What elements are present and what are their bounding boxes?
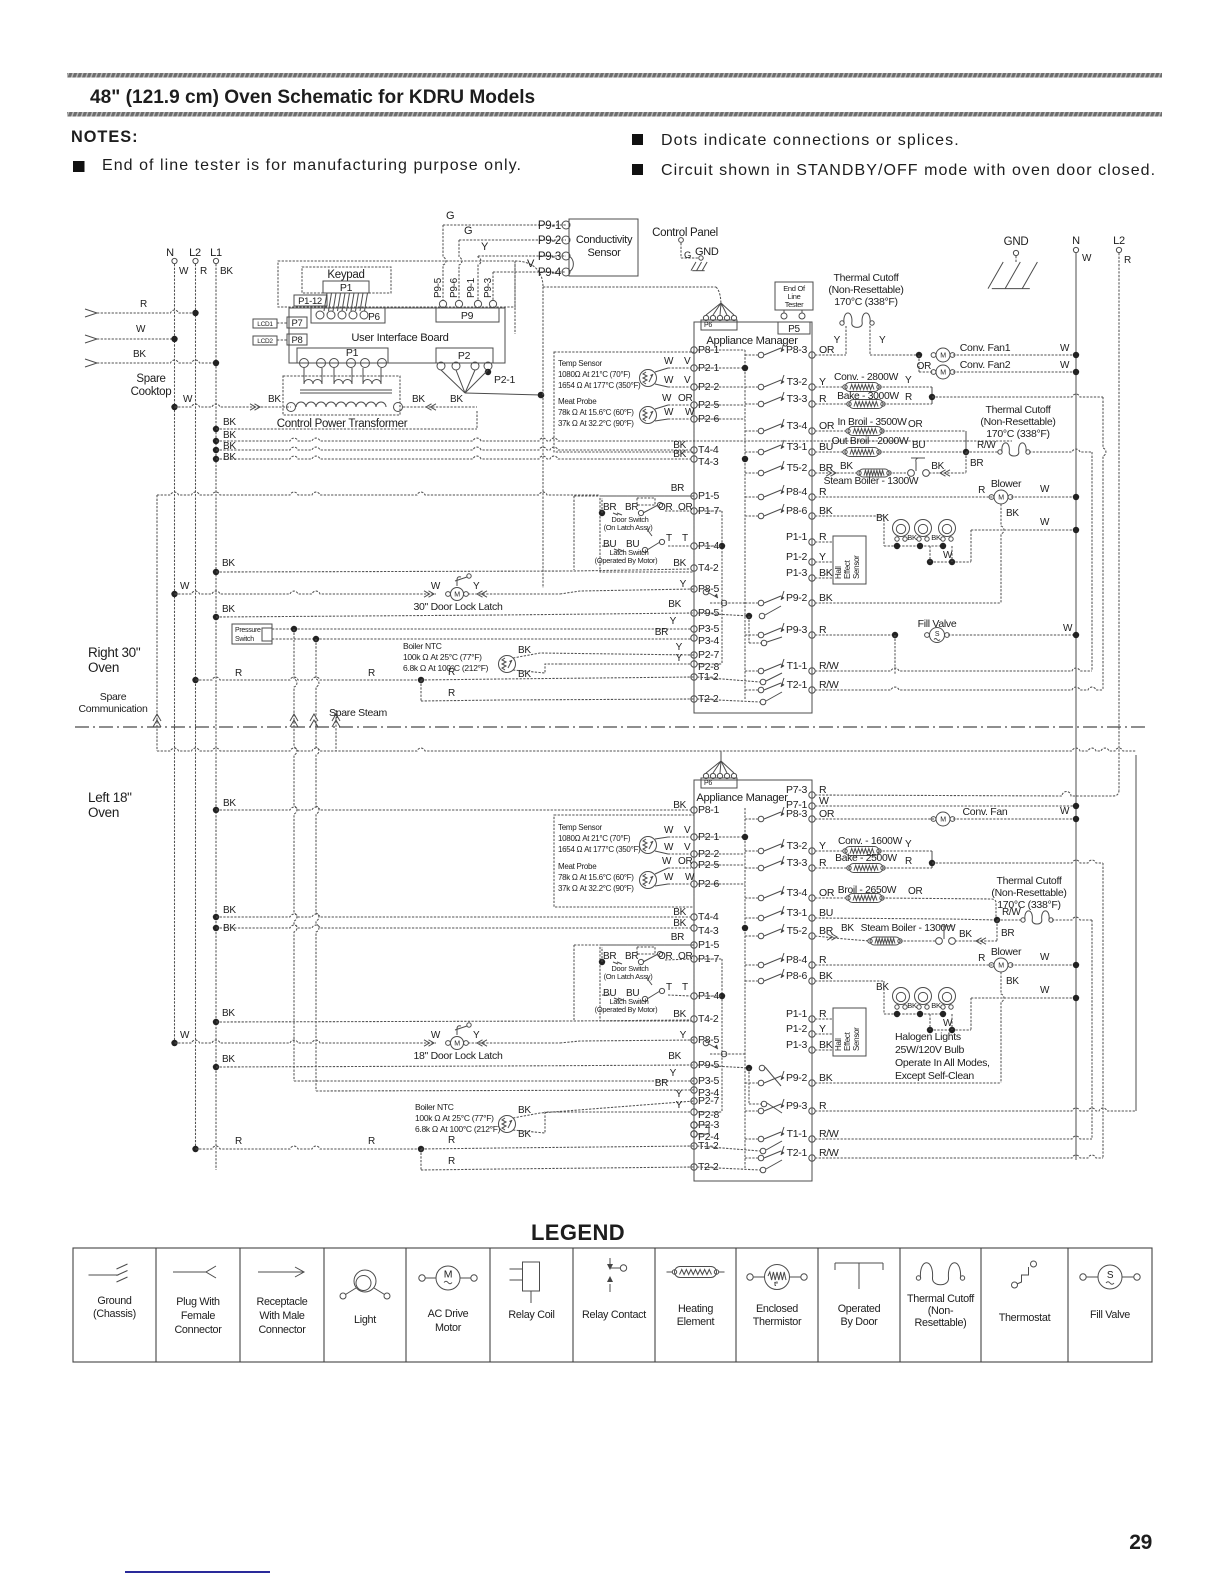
svg-text:LCD2: LCD2 bbox=[257, 338, 273, 345]
legend table bbox=[73, 1248, 1152, 1362]
wire L2 bus bbox=[195, 264, 197, 1149]
svg-text:R: R bbox=[978, 953, 985, 964]
svg-text:By Door: By Door bbox=[841, 1316, 879, 1328]
svg-text:P2-7: P2-7 bbox=[698, 649, 719, 661]
wire P9-3 P9-4 jumper arc bbox=[569, 256, 573, 272]
svg-text:(Non-Resettable): (Non-Resettable) bbox=[828, 284, 903, 296]
svg-text:Relay Contact: Relay Contact bbox=[582, 1309, 646, 1321]
AM18 T1-2 T2-2 feeds bbox=[697, 1146, 760, 1151]
svg-text:P9-3: P9-3 bbox=[786, 624, 807, 636]
svg-text:Sensor: Sensor bbox=[852, 1027, 861, 1051]
svg-text:Temp Sensor: Temp Sensor bbox=[558, 359, 602, 368]
30 door lock latch bbox=[171, 591, 177, 597]
svg-text:25W/120V Bulb: 25W/120V Bulb bbox=[895, 1044, 965, 1056]
wires P2 fan bbox=[441, 370, 465, 393]
connector P6 AM18 bbox=[701, 778, 737, 788]
svg-text:BK: BK bbox=[673, 907, 686, 918]
svg-text:P9-5: P9-5 bbox=[433, 277, 444, 298]
svg-text:R: R bbox=[819, 1008, 827, 1020]
svg-text:Spare: Spare bbox=[100, 691, 127, 703]
svg-text:OR: OR bbox=[819, 887, 835, 899]
wire N bus right bbox=[1075, 253, 1077, 1160]
svg-text:Y: Y bbox=[819, 376, 826, 388]
svg-text:W: W bbox=[180, 1030, 190, 1041]
svg-text:W: W bbox=[662, 856, 672, 867]
svg-text:R: R bbox=[448, 1156, 455, 1167]
svg-text:BK: BK bbox=[1006, 976, 1019, 987]
svg-text:OR: OR bbox=[908, 886, 922, 897]
svg-text:Motor: Motor bbox=[435, 1322, 462, 1334]
svg-text:170°C (338°F): 170°C (338°F) bbox=[986, 428, 1049, 440]
svg-text:M: M bbox=[998, 495, 1004, 502]
svg-text:P9-2: P9-2 bbox=[786, 592, 807, 604]
svg-text:P1: P1 bbox=[346, 347, 359, 359]
svg-text:Operated: Operated bbox=[838, 1303, 881, 1315]
svg-text:P8-6: P8-6 bbox=[786, 970, 807, 982]
svg-text:OR: OR bbox=[819, 344, 835, 356]
svg-text:G: G bbox=[684, 250, 691, 261]
wire N bus bbox=[174, 264, 176, 1046]
svg-text:Y: Y bbox=[676, 1100, 683, 1111]
svg-text:T5-2: T5-2 bbox=[787, 925, 808, 937]
wire L1 bus bbox=[215, 264, 217, 1170]
wire BK T4-2 feed 18 bbox=[213, 1019, 219, 1025]
svg-text:P8-4: P8-4 bbox=[786, 954, 807, 966]
svg-text:P3-4: P3-4 bbox=[698, 635, 719, 647]
svg-text:W: W bbox=[685, 872, 695, 883]
blue rule bbox=[125, 1571, 270, 1573]
svg-text:(Non-: (Non- bbox=[928, 1305, 954, 1317]
svg-text:BK: BK bbox=[673, 918, 686, 929]
halogen lamp 1 bbox=[893, 520, 910, 537]
svg-text:BR: BR bbox=[671, 483, 684, 494]
svg-text:User Interface Board: User Interface Board bbox=[351, 332, 448, 344]
wire BK tap1 bbox=[213, 426, 219, 432]
svg-text:Heating: Heating bbox=[678, 1303, 713, 1315]
svg-text:BK: BK bbox=[220, 266, 233, 277]
svg-text:Y: Y bbox=[879, 335, 886, 346]
wire BK tap2 bbox=[213, 438, 219, 444]
svg-text:Y: Y bbox=[481, 241, 489, 253]
svg-text:N: N bbox=[166, 247, 174, 259]
svg-text:R: R bbox=[368, 1136, 375, 1147]
svg-text:Steam Boiler - 1300W: Steam Boiler - 1300W bbox=[861, 923, 956, 934]
svg-text:P9-3: P9-3 bbox=[538, 251, 561, 263]
svg-text:BK: BK bbox=[819, 1039, 833, 1051]
svg-text:BK: BK bbox=[518, 645, 531, 656]
svg-text:Control Power Transformer: Control Power Transformer bbox=[277, 418, 408, 430]
legend sym AC motor bbox=[436, 1266, 460, 1290]
internal bus 18 bbox=[744, 808, 746, 1170]
svg-text:Bake - 3000W: Bake - 3000W bbox=[837, 391, 899, 402]
svg-text:R: R bbox=[235, 1136, 242, 1147]
svg-text:BK: BK bbox=[876, 513, 889, 524]
svg-text:BK: BK bbox=[223, 798, 236, 809]
svg-text:BR: BR bbox=[655, 627, 668, 638]
spare cooktop BK wire bbox=[85, 359, 97, 367]
svg-text:R: R bbox=[819, 393, 827, 405]
svg-text:W: W bbox=[431, 1030, 441, 1041]
svg-text:BK: BK bbox=[518, 1105, 531, 1116]
blower motor 18 bbox=[815, 964, 994, 966]
svg-text:Enclosed: Enclosed bbox=[756, 1303, 798, 1315]
legend sym plug female bbox=[173, 1266, 216, 1278]
svg-text:(Operated By Motor): (Operated By Motor) bbox=[595, 556, 658, 565]
svg-text:R: R bbox=[1124, 255, 1131, 266]
wire right drop 1092 bbox=[1091, 452, 1093, 671]
ground chassis control panel bbox=[691, 262, 707, 271]
svg-text:BK: BK bbox=[222, 1008, 235, 1019]
svg-text:L2: L2 bbox=[189, 247, 201, 259]
svg-text:BK: BK bbox=[450, 394, 463, 405]
svg-text:V: V bbox=[684, 375, 691, 386]
svg-text:Y: Y bbox=[676, 653, 683, 664]
svg-text:BK: BK bbox=[819, 505, 833, 517]
wire lamp bus 18 bbox=[884, 1013, 943, 1015]
legend sym receptacle male bbox=[258, 1267, 304, 1277]
svg-text:OR: OR bbox=[819, 808, 835, 820]
legend sym light bbox=[354, 1270, 376, 1292]
svg-text:Resettable): Resettable) bbox=[915, 1317, 967, 1329]
wire P9-2 bbox=[815, 602, 1001, 604]
svg-text:1080Ω At 21°C (70°F): 1080Ω At 21°C (70°F) bbox=[558, 834, 631, 843]
wires door switch to pins bbox=[601, 498, 603, 513]
thermistor meat 18 bbox=[640, 872, 657, 889]
svg-text:R: R bbox=[235, 668, 242, 679]
svg-text:P1-12: P1-12 bbox=[298, 296, 322, 307]
svg-text:Conv. Fan: Conv. Fan bbox=[963, 806, 1008, 818]
svg-text:R: R bbox=[448, 1135, 455, 1146]
svg-text:BU: BU bbox=[819, 907, 833, 919]
svg-text:BR: BR bbox=[970, 458, 983, 469]
svg-text:T3-1: T3-1 bbox=[787, 907, 808, 919]
vertical feeds pressure bbox=[294, 629, 297, 1081]
svg-text:T1-1: T1-1 bbox=[787, 660, 808, 672]
svg-text:V: V bbox=[684, 842, 691, 853]
svg-text:Light: Light bbox=[354, 1314, 376, 1326]
legend sym fill valve bbox=[1098, 1265, 1122, 1289]
connector P8 bbox=[287, 334, 307, 345]
svg-text:37k Ω At 32.2°C (90°F): 37k Ω At 32.2°C (90°F) bbox=[558, 419, 634, 428]
svg-text:Cooktop: Cooktop bbox=[131, 386, 172, 398]
wire right oven feed bbox=[156, 495, 158, 751]
svg-text:R/W: R/W bbox=[819, 1147, 839, 1159]
svg-text:R/W: R/W bbox=[977, 440, 996, 451]
internal bus bbox=[744, 350, 746, 700]
svg-text:With Male: With Male bbox=[259, 1310, 305, 1322]
svg-text:R: R bbox=[819, 624, 827, 636]
keypad P1 box bbox=[323, 281, 369, 293]
wire P3-5 18 bbox=[294, 1080, 694, 1082]
svg-text:P2-7: P2-7 bbox=[698, 1095, 719, 1107]
svg-text:W: W bbox=[664, 356, 674, 367]
svg-text:18" Door Lock Latch: 18" Door Lock Latch bbox=[413, 1050, 503, 1062]
18 door lock latch bbox=[171, 1040, 177, 1046]
wire P9-5 riser bbox=[439, 300, 446, 307]
svg-text:M: M bbox=[444, 1269, 452, 1281]
svg-text:BK: BK bbox=[819, 970, 833, 982]
wire P9-2 18 bbox=[815, 1082, 1001, 1084]
svg-text:Conv. - 1600W: Conv. - 1600W bbox=[838, 836, 903, 847]
header rule bottom bbox=[67, 112, 1162, 117]
svg-text:GND: GND bbox=[695, 246, 719, 258]
svg-text:T4-2: T4-2 bbox=[698, 1013, 719, 1025]
temp sensor dashed box bbox=[554, 352, 694, 452]
door operated contact bbox=[908, 470, 915, 477]
svg-text:W: W bbox=[1082, 253, 1092, 264]
connector P6 AM bbox=[701, 320, 737, 330]
svg-text:P5: P5 bbox=[788, 324, 800, 335]
svg-text:Y: Y bbox=[473, 1030, 480, 1041]
temp sensor dashed box 18 bbox=[554, 815, 694, 907]
svg-text:Oven: Oven bbox=[88, 660, 119, 675]
wire P3-4 18 bbox=[316, 1090, 694, 1091]
svg-text:V: V bbox=[684, 356, 691, 367]
svg-text:R/W: R/W bbox=[819, 660, 839, 672]
svg-text:R/W: R/W bbox=[819, 679, 839, 691]
svg-text:W: W bbox=[685, 407, 695, 418]
svg-text:L1: L1 bbox=[210, 247, 222, 259]
svg-text:BK: BK bbox=[907, 533, 917, 542]
svg-text:P9-4: P9-4 bbox=[538, 267, 562, 279]
fill valve 30 bbox=[815, 634, 895, 636]
svg-text:Boiler NTC: Boiler NTC bbox=[415, 1102, 454, 1112]
svg-text:BK: BK bbox=[673, 1009, 686, 1020]
svg-text:BK: BK bbox=[668, 1051, 681, 1062]
divider dash-dot bbox=[75, 726, 1148, 728]
svg-text:BK: BK bbox=[907, 1001, 917, 1010]
header rule top bbox=[67, 73, 1162, 78]
connector P7 bbox=[287, 317, 307, 328]
keypad outer dashed box bbox=[278, 261, 515, 307]
svg-text:BK: BK bbox=[840, 461, 853, 472]
wire P9-3 18 bbox=[815, 1108, 1136, 1111]
svg-text:Appliance Manager: Appliance Manager bbox=[706, 335, 798, 347]
wire R T1-2 18 bbox=[192, 1146, 198, 1152]
wires hall sensor bbox=[815, 541, 833, 543]
svg-text:T4-2: T4-2 bbox=[698, 562, 719, 574]
svg-text:Circuit shown in STANDBY/OFF m: Circuit shown in STANDBY/OFF mode with o… bbox=[661, 162, 1156, 179]
svg-text:Y: Y bbox=[905, 839, 912, 850]
svg-text:BK: BK bbox=[222, 1054, 235, 1065]
svg-text:LCD1: LCD1 bbox=[257, 321, 273, 328]
svg-text:M: M bbox=[454, 1041, 460, 1048]
wires meat probe bbox=[655, 405, 668, 409]
AM18 P8-5 contact bbox=[703, 1040, 709, 1046]
legend sym thermal cutoff bbox=[920, 1263, 960, 1285]
svg-text:T3-4: T3-4 bbox=[787, 887, 808, 899]
wire right drop 1105b bbox=[1102, 863, 1104, 1158]
wire lamp bus bbox=[884, 545, 943, 547]
svg-text:M: M bbox=[940, 370, 946, 377]
svg-text:Spare Steam: Spare Steam bbox=[329, 707, 388, 719]
wire BK P9-5 18 bbox=[213, 1064, 219, 1070]
svg-text:Switch: Switch bbox=[235, 636, 254, 643]
svg-text:Hall: Hall bbox=[834, 566, 843, 579]
wire P8-6 bbox=[815, 515, 884, 517]
halogen lamp 2 bbox=[915, 520, 932, 537]
wire BK tap4 bbox=[213, 456, 219, 462]
AM18 internal stubs bbox=[697, 836, 745, 838]
svg-text:Effect: Effect bbox=[843, 559, 852, 579]
halogen lamp 5 bbox=[915, 988, 932, 1005]
legend sym enclosed thermistor bbox=[765, 1265, 790, 1290]
svg-text:Y: Y bbox=[819, 551, 826, 563]
svg-text:BK: BK bbox=[222, 604, 235, 615]
svg-text:W: W bbox=[183, 394, 193, 405]
svg-text:W: W bbox=[1040, 985, 1050, 996]
svg-text:BK: BK bbox=[268, 394, 281, 405]
svg-text:Y: Y bbox=[905, 375, 912, 386]
svg-text:P9: P9 bbox=[461, 310, 474, 322]
svg-text:100k Ω At 25°C (77°F): 100k Ω At 25°C (77°F) bbox=[415, 1113, 494, 1123]
svg-text:W: W bbox=[180, 581, 190, 592]
svg-text:(Operated By Motor): (Operated By Motor) bbox=[595, 1005, 658, 1014]
wire T2-1 18 bbox=[815, 1155, 1103, 1158]
svg-text:Temp Sensor: Temp Sensor bbox=[558, 823, 602, 832]
svg-text:S: S bbox=[935, 631, 940, 638]
svg-text:R/W: R/W bbox=[1002, 907, 1021, 918]
svg-text:Blower: Blower bbox=[991, 478, 1022, 490]
svg-text:6.8k Ω At 100°C (212°F): 6.8k Ω At 100°C (212°F) bbox=[403, 663, 489, 673]
svg-text:BK: BK bbox=[223, 905, 236, 916]
AM30 left pins bbox=[691, 347, 697, 353]
wire OR P8-3 bbox=[815, 354, 846, 356]
svg-text:AC Drive: AC Drive bbox=[428, 1308, 469, 1320]
svg-text:BK: BK bbox=[412, 394, 425, 405]
svg-text:G: G bbox=[464, 225, 472, 237]
svg-text:Boiler NTC: Boiler NTC bbox=[403, 641, 442, 651]
wire BK P9-5 bbox=[213, 614, 219, 620]
svg-text:Pressure: Pressure bbox=[235, 627, 261, 634]
svg-text:BK: BK bbox=[819, 567, 833, 579]
svg-text:OR: OR bbox=[678, 393, 692, 404]
wire junction bake/conv bbox=[931, 387, 933, 404]
svg-text:BK: BK bbox=[222, 558, 235, 569]
AM18 P9-5 junction bbox=[697, 1065, 749, 1068]
svg-text:Oven: Oven bbox=[88, 805, 119, 820]
svg-text:T1-1: T1-1 bbox=[787, 1128, 808, 1140]
wire L2 bus right bbox=[1118, 253, 1120, 790]
svg-text:37k Ω At 32.2°C (90°F): 37k Ω At 32.2°C (90°F) bbox=[558, 884, 634, 893]
heating element steam boiler bbox=[815, 472, 859, 474]
svg-text:1654 Ω At 177°C (350°F): 1654 Ω At 177°C (350°F) bbox=[558, 845, 641, 854]
svg-text:P8-4: P8-4 bbox=[786, 486, 807, 498]
svg-text:P7-3: P7-3 bbox=[786, 784, 807, 796]
svg-text:W: W bbox=[664, 842, 674, 853]
svg-text:W: W bbox=[819, 795, 829, 807]
svg-text:Steam Boiler - 1300W: Steam Boiler - 1300W bbox=[824, 476, 919, 487]
wire BK tap3 bbox=[213, 447, 219, 453]
wire R T2-2 bbox=[420, 680, 422, 701]
svg-text:T3-1: T3-1 bbox=[787, 441, 808, 453]
svg-text:Sensor: Sensor bbox=[852, 555, 861, 579]
wire left oven feed bbox=[157, 748, 1136, 751]
svg-text:Effect: Effect bbox=[843, 1031, 852, 1051]
svg-text:78k Ω At 15.6°C (60°F): 78k Ω At 15.6°C (60°F) bbox=[558, 873, 634, 882]
heating element steam boiler 18 bbox=[815, 936, 870, 941]
svg-text:BR: BR bbox=[625, 502, 638, 513]
wire T1-1 18 bbox=[815, 1136, 1092, 1139]
svg-text:P6: P6 bbox=[704, 780, 712, 787]
AM30 P9-5 junction bbox=[697, 613, 749, 616]
wire T2-1 bbox=[815, 687, 1103, 690]
svg-text:BR: BR bbox=[625, 951, 638, 962]
svg-text:Dots indicate connections or s: Dots indicate connections or splices. bbox=[661, 132, 960, 149]
thermistor temp 18 bbox=[640, 837, 657, 854]
svg-text:W: W bbox=[431, 581, 441, 592]
svg-text:T4-3: T4-3 bbox=[698, 456, 719, 468]
svg-text:Thermal Cutoff: Thermal Cutoff bbox=[833, 272, 898, 284]
wire T4-2 loop bbox=[573, 496, 575, 570]
svg-text:BK: BK bbox=[1006, 508, 1019, 519]
svg-text:Appliance Manager: Appliance Manager bbox=[696, 792, 788, 804]
svg-text:P9-1: P9-1 bbox=[538, 220, 561, 232]
svg-text:W: W bbox=[136, 324, 146, 335]
wire P7-1 bbox=[815, 805, 1076, 807]
wire comm to AM bbox=[543, 286, 716, 288]
svg-text:P1-3: P1-3 bbox=[786, 1039, 807, 1051]
svg-text:P8-3: P8-3 bbox=[786, 344, 807, 356]
svg-text:N: N bbox=[1072, 235, 1080, 247]
connector P9 bbox=[436, 308, 499, 322]
user interface board U2 bbox=[289, 308, 505, 363]
svg-text:W: W bbox=[1060, 343, 1070, 354]
svg-text:Communication: Communication bbox=[78, 703, 148, 715]
svg-text:Except Self-Clean: Except Self-Clean bbox=[895, 1070, 974, 1082]
wire right drop 1105 bbox=[1103, 397, 1106, 690]
AM30 internal stubs bbox=[697, 349, 745, 351]
svg-text:P8-6: P8-6 bbox=[786, 505, 807, 517]
svg-text:P1-2: P1-2 bbox=[786, 551, 807, 563]
svg-text:V: V bbox=[684, 825, 691, 836]
svg-text:R: R bbox=[819, 486, 827, 498]
svg-text:T3-3: T3-3 bbox=[787, 393, 808, 405]
svg-text:R: R bbox=[819, 954, 827, 966]
transformer T1 bbox=[304, 380, 322, 385]
svg-text:Y: Y bbox=[819, 840, 826, 852]
wire right drop 1092b bbox=[1091, 920, 1093, 1139]
connector P1 bottom bbox=[297, 348, 388, 363]
svg-text:P9-3: P9-3 bbox=[483, 277, 494, 298]
svg-text:Conductivity: Conductivity bbox=[576, 234, 633, 246]
svg-text:P1-5: P1-5 bbox=[698, 939, 719, 951]
halogen lamp 4 bbox=[893, 988, 910, 1005]
svg-text:BR: BR bbox=[655, 1078, 668, 1089]
svg-text:Plug With: Plug With bbox=[176, 1296, 220, 1308]
hall effect sensor 18 bbox=[833, 1008, 866, 1056]
svg-text:Keypad: Keypad bbox=[327, 269, 364, 281]
svg-text:T: T bbox=[666, 533, 672, 544]
svg-text:R: R bbox=[905, 392, 912, 403]
svg-text:P9-2: P9-2 bbox=[538, 235, 561, 247]
end of line tester box bbox=[775, 282, 813, 310]
svg-text:W: W bbox=[664, 872, 674, 883]
svg-text:R: R bbox=[368, 668, 375, 679]
wire comm vertical bbox=[515, 261, 543, 287]
svg-text:NOTES:: NOTES: bbox=[71, 128, 139, 146]
svg-text:Halogen Lights: Halogen Lights bbox=[895, 1031, 961, 1043]
svg-text:R: R bbox=[140, 299, 147, 310]
svg-text:R: R bbox=[819, 531, 827, 543]
svg-text:Y: Y bbox=[670, 616, 677, 627]
svg-text:Ground: Ground bbox=[97, 1295, 132, 1307]
svg-text:30" Door Lock Latch: 30" Door Lock Latch bbox=[413, 601, 503, 613]
svg-text:P9-1: P9-1 bbox=[466, 277, 477, 298]
svg-text:W: W bbox=[1040, 517, 1050, 528]
svg-text:Receptacle: Receptacle bbox=[256, 1296, 307, 1308]
svg-text:170°C (338°F): 170°C (338°F) bbox=[834, 296, 897, 308]
